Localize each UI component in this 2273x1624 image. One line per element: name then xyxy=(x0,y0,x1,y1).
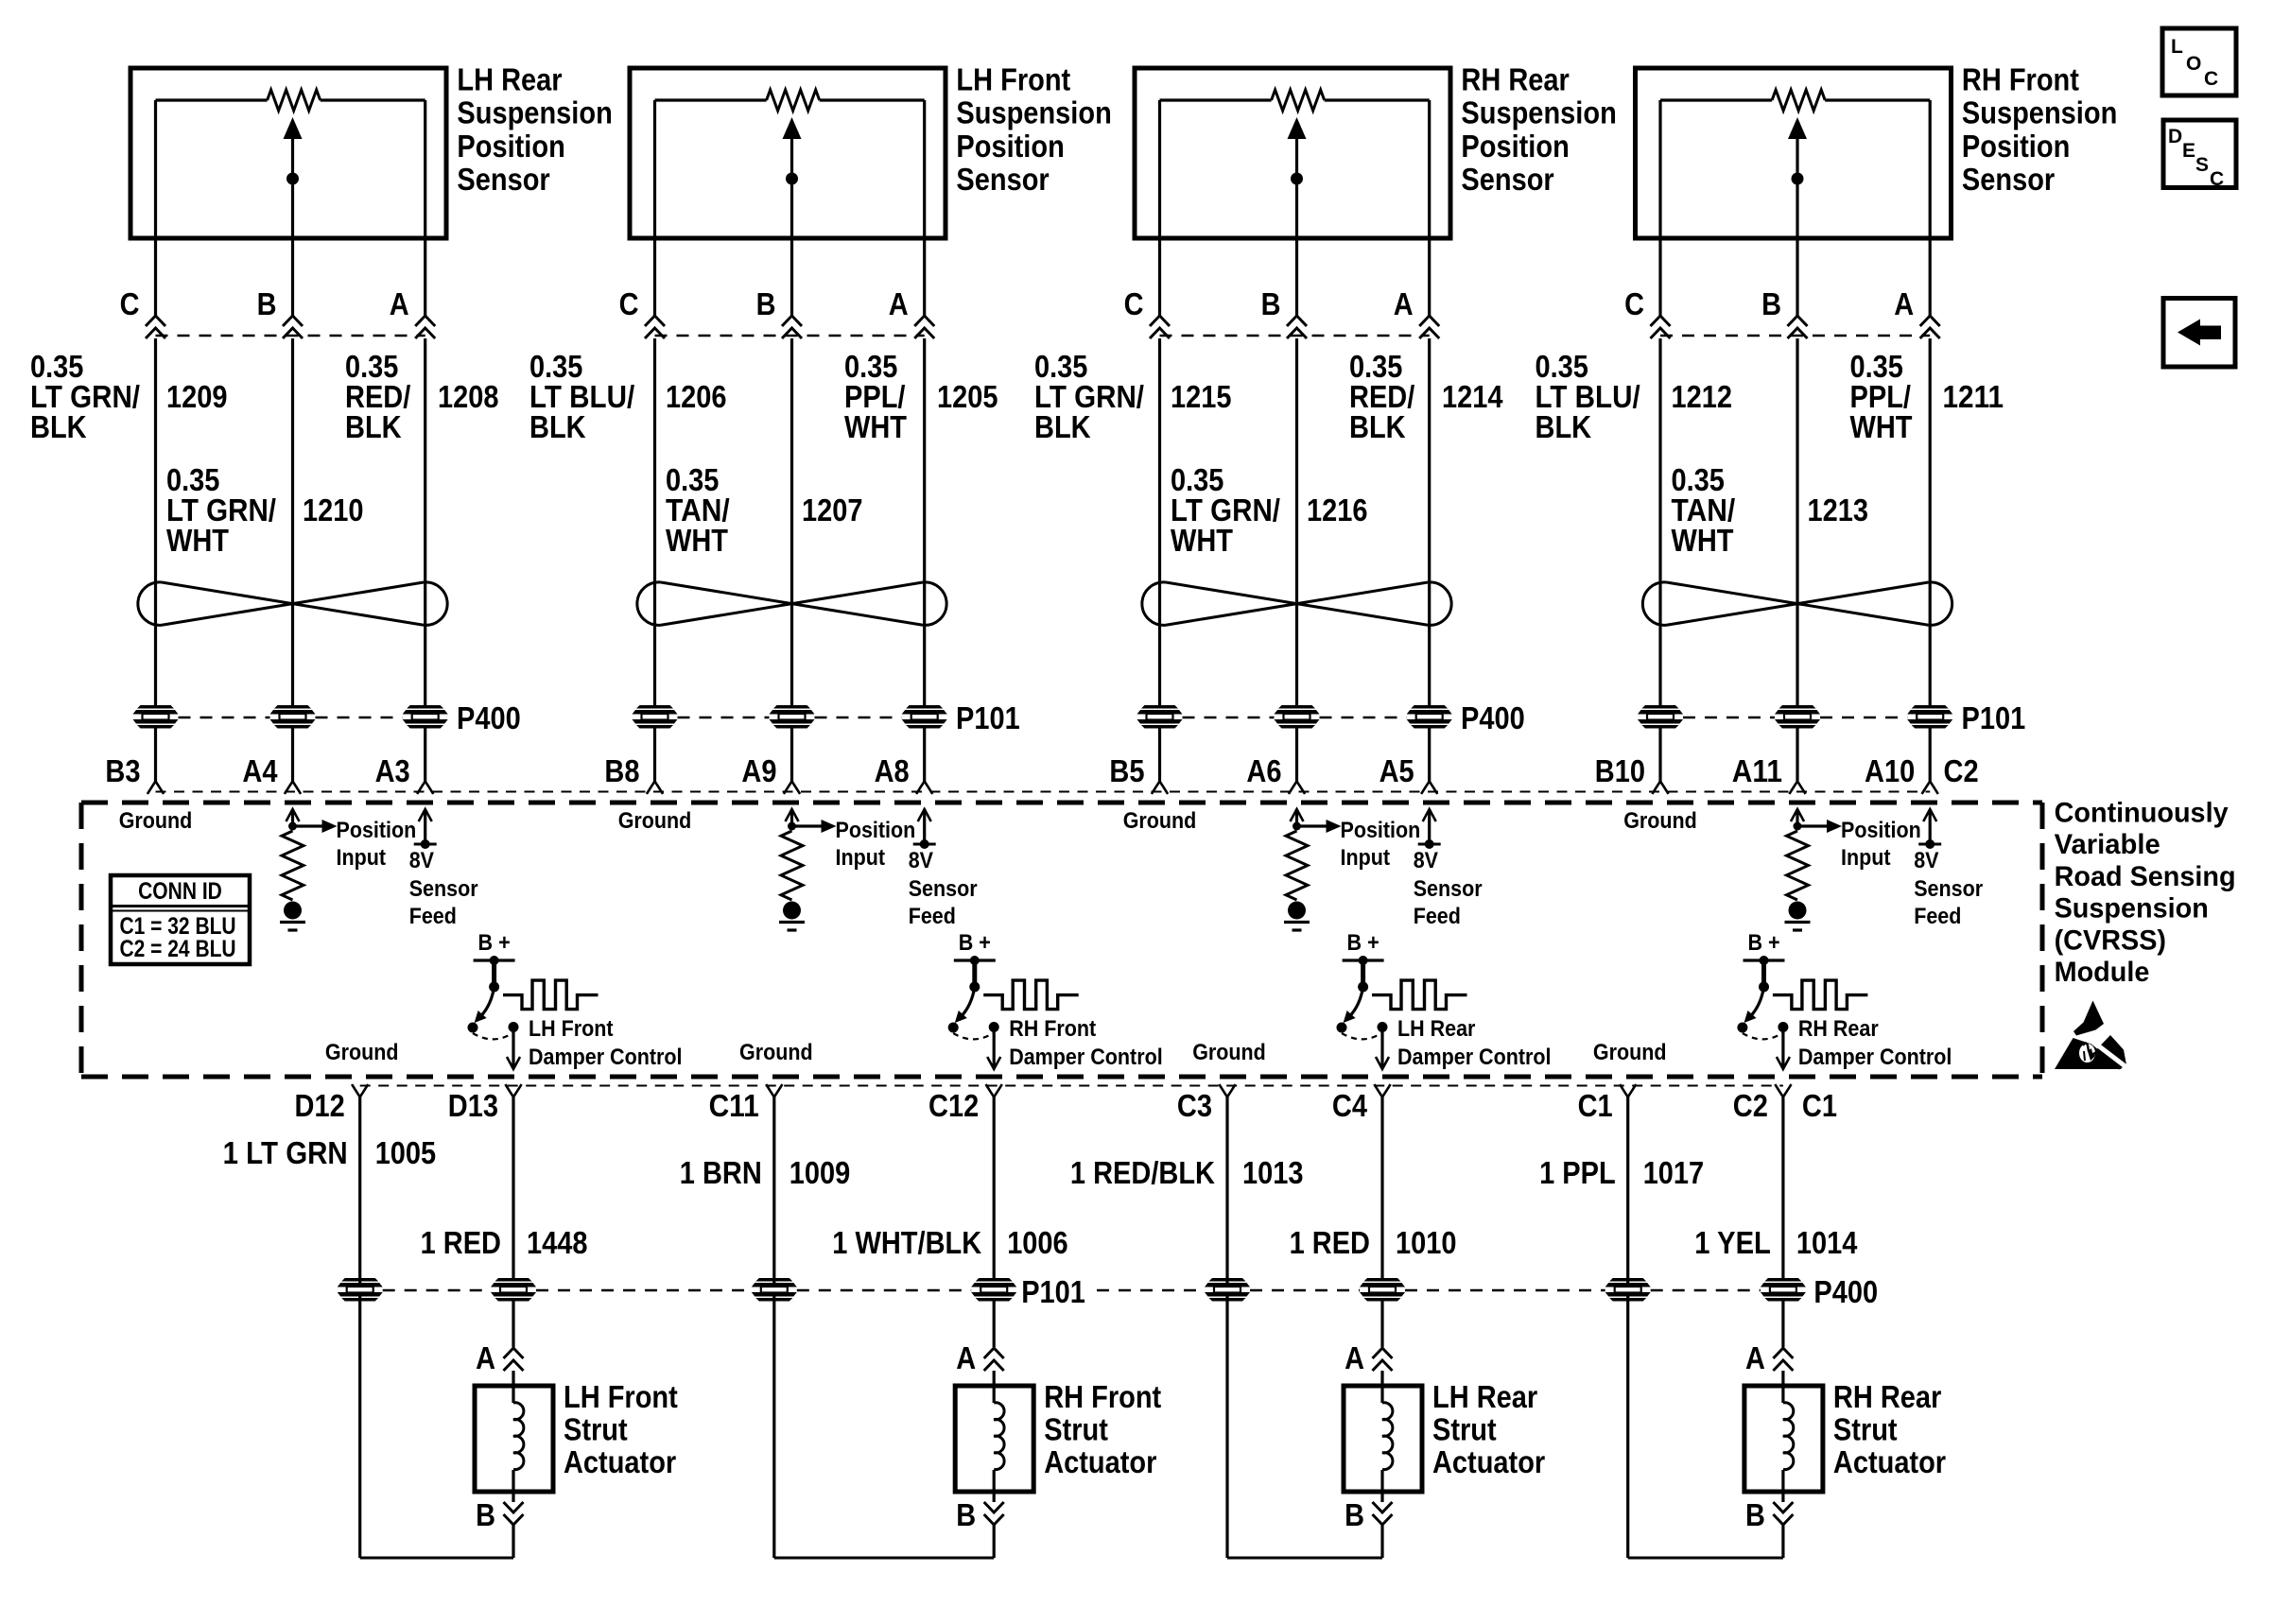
actuator M3 title xyxy=(1432,1379,1545,1479)
sensor S4 RH Front Suspension Position Sensor box xyxy=(1636,68,1952,238)
svg-text:P101: P101 xyxy=(956,700,1020,735)
svg-text:1207: 1207 xyxy=(802,492,863,527)
ground (module internal) xyxy=(280,902,305,931)
svg-text:1 YEL: 1 YEL xyxy=(1694,1225,1771,1260)
svg-text:C1: C1 xyxy=(1578,1088,1613,1123)
RH Front Damper Control output arrow (pin C12) xyxy=(987,1028,1000,1070)
module connector terminal fork pin A9 xyxy=(784,782,800,794)
wire value label 0.35 TAN/ WHT (circuit 1207) xyxy=(666,462,730,558)
svg-text:C2: C2 xyxy=(1944,753,1979,788)
twisted-pair symbol on sensor S1 harness xyxy=(138,582,447,626)
wire A from sensor S1 to in-line connector xyxy=(424,238,426,316)
wire value label 0.35 PPL/ WHT (circuit 1211) xyxy=(1850,349,1913,444)
svg-text:1208: 1208 xyxy=(438,379,499,414)
wire segment B below in-line connector S1 xyxy=(291,338,294,705)
svg-text:Position: Position xyxy=(1461,129,1569,164)
svg-text:Sensor: Sensor xyxy=(1962,162,2055,197)
svg-text:Sensor: Sensor xyxy=(1461,162,1553,197)
svg-text:Damper Control: Damper Control xyxy=(1397,1045,1552,1070)
svg-text:Ground: Ground xyxy=(325,1040,399,1065)
svg-text:1010: 1010 xyxy=(1396,1225,1457,1260)
svg-text:Sensor: Sensor xyxy=(956,162,1049,197)
svg-text:LH Rear: LH Rear xyxy=(1397,1016,1475,1042)
module connector terminal fork pin C4 xyxy=(1374,1084,1390,1097)
DESC reference box xyxy=(2163,120,2236,190)
PWM waveform symbol for LH Rear damper control xyxy=(1372,980,1467,1010)
damper control wire 1448 (1 RED) from pin D13 xyxy=(512,1097,514,1279)
wire segment C below in-line connector S3 xyxy=(1158,338,1161,705)
back-arrow navigation box xyxy=(2163,299,2235,368)
ground (module internal) xyxy=(779,902,805,931)
dashed link across bottom connector row (between pairs) xyxy=(536,1289,1605,1292)
dashed link between P400 connectors S3 xyxy=(1183,717,1275,719)
pass-through connector on ground wire 1017 xyxy=(1605,1278,1651,1302)
svg-text:Input: Input xyxy=(337,845,387,871)
actuator M2 title xyxy=(1044,1379,1161,1479)
svg-text:LH Front: LH Front xyxy=(564,1379,678,1414)
module connector terminal fork pin A6 xyxy=(1289,782,1305,794)
wire segment B below in-line connector S3 xyxy=(1295,338,1298,705)
8V Sensor Feed source arrow (pin A10) xyxy=(1918,809,1941,849)
connector mating dashed line sensor S2 xyxy=(655,335,925,337)
ground return wire 1017 (1 PPL) from pin C1 xyxy=(1628,1097,1783,1559)
svg-text:O: O xyxy=(2186,53,2201,75)
svg-text:A: A xyxy=(1745,1340,1765,1375)
switch SW3 LH Rear damper control driver xyxy=(1337,960,1388,1039)
in-line connector chevrons at actuator A xyxy=(1373,1348,1393,1371)
ESD sensitive device symbol xyxy=(2055,1001,2126,1070)
svg-text:B: B xyxy=(476,1497,495,1532)
wire B from sensor S3 to in-line connector xyxy=(1295,238,1298,316)
module bottom connector mating dashed line xyxy=(360,1085,1783,1087)
LOC reference box xyxy=(2162,28,2236,95)
resistor R2 potentiometer element of sensor S2 xyxy=(767,90,820,111)
wire segment C below in-line connector S2 xyxy=(653,338,656,705)
svg-text:Actuator: Actuator xyxy=(1833,1444,1946,1479)
actuator M4 RH Rear Strut Actuator box xyxy=(1744,1386,1823,1492)
svg-text:B: B xyxy=(1745,1497,1765,1532)
svg-text:A8: A8 xyxy=(875,753,910,788)
svg-text:Feed: Feed xyxy=(1914,904,1961,929)
svg-text:BLK: BLK xyxy=(1536,409,1592,444)
svg-text:Sensor: Sensor xyxy=(1414,876,1483,902)
CVRSS module dashed outline box xyxy=(81,803,2042,1077)
svg-text:C1: C1 xyxy=(1802,1088,1837,1123)
pass-through connector on ground wire 1009 xyxy=(752,1278,797,1302)
svg-text:Actuator: Actuator xyxy=(1044,1444,1156,1479)
pass-through connector on damper wire 1006 xyxy=(971,1278,1016,1302)
twisted-pair symbol on sensor S2 harness xyxy=(637,582,946,626)
wire value label 0.35 RED/ BLK (circuit 1214) xyxy=(1349,349,1414,444)
module connector terminal fork pin D13 xyxy=(505,1084,521,1097)
8V Sensor Feed source arrow (pin A8) xyxy=(913,809,936,849)
label RH Front Damper Control xyxy=(1009,1016,1163,1070)
wire segment C to module pin B8 xyxy=(653,729,656,782)
label LH Front Damper Control xyxy=(529,1016,683,1070)
module top connector mating dashed line xyxy=(156,791,1931,793)
LH Front Damper Control output arrow (pin D13) xyxy=(507,1028,520,1070)
terminal letters C B A at sensor S4 connector xyxy=(1624,286,1914,321)
dashed link between bottom connectors xyxy=(1651,1289,1761,1292)
svg-text:Feed: Feed xyxy=(409,904,457,929)
wire segment A below in-line connector S4 xyxy=(1929,338,1932,705)
twisted-pair symbol on sensor S3 harness xyxy=(1142,582,1451,626)
ground return wire 1009 (1 BRN) from pin C11 xyxy=(774,1097,994,1559)
svg-text:Strut: Strut xyxy=(1833,1412,1898,1447)
svg-text:BLK: BLK xyxy=(1034,409,1091,444)
label Position Input xyxy=(337,818,417,871)
svg-text:BLK: BLK xyxy=(1349,409,1406,444)
wire value label 0.35 RED/ BLK (circuit 1208) xyxy=(345,349,410,444)
wire value label 0.35 LT BLU/ BLK (circuit 1212) xyxy=(1536,349,1640,444)
svg-text:Strut: Strut xyxy=(564,1412,628,1447)
node B+ supply for LH Front damper switch xyxy=(474,930,515,965)
dashed link between bottom connectors xyxy=(1250,1289,1360,1292)
svg-text:RH Rear: RH Rear xyxy=(1798,1016,1879,1042)
svg-text:B: B xyxy=(1345,1497,1364,1532)
svg-text:C4: C4 xyxy=(1332,1088,1368,1123)
wire segment A to module pin A8 xyxy=(923,729,926,782)
ground return wire 1005 (1 LT GRN) from pin D12 xyxy=(360,1097,513,1559)
in-line connector chevrons at actuator B xyxy=(504,1502,524,1525)
svg-text:1 BRN: 1 BRN xyxy=(680,1155,762,1190)
svg-text:1214: 1214 xyxy=(1442,379,1503,414)
svg-text:Sensor: Sensor xyxy=(409,876,478,902)
connector mating dashed line sensor S1 xyxy=(156,335,425,337)
dashed link between bottom connectors xyxy=(383,1289,491,1292)
svg-text:A6: A6 xyxy=(1246,753,1281,788)
svg-text:Strut: Strut xyxy=(1432,1412,1497,1447)
module connector terminal fork pin A3 xyxy=(417,782,433,794)
svg-text:Damper Control: Damper Control xyxy=(529,1045,683,1070)
svg-text:A: A xyxy=(390,286,409,321)
wire segment B to module pin A4 xyxy=(291,729,294,782)
wire value label 0.35 LT GRN/ BLK (circuit 1209) xyxy=(30,349,140,444)
pass-through connector P400 on wire A S3 xyxy=(1407,705,1452,729)
svg-text:C: C xyxy=(2204,68,2218,90)
terminal letters C B A at sensor S2 connector xyxy=(619,286,909,321)
wire segment A below in-line connector S3 xyxy=(1428,338,1431,705)
wire segment B to module pin A11 xyxy=(1796,729,1798,782)
wire A from sensor S3 to in-line connector xyxy=(1428,238,1431,316)
svg-text:Actuator: Actuator xyxy=(1432,1444,1545,1479)
resistor (module internal pull-down) on Position Input 3 xyxy=(1286,831,1308,900)
coil L3 solenoid winding of LH Rear strut actuator xyxy=(1382,1386,1393,1492)
svg-text:Damper Control: Damper Control xyxy=(1009,1045,1163,1070)
sensor S4 internal potentiometer track wires xyxy=(1660,100,1930,238)
resistor (module internal pull-down) on Position Input 1 xyxy=(282,831,304,900)
svg-text:A4: A4 xyxy=(242,753,278,788)
PWM waveform symbol for RH Front damper control xyxy=(983,980,1079,1010)
svg-text:B10: B10 xyxy=(1595,753,1645,788)
svg-text:Input: Input xyxy=(836,845,886,871)
svg-text:B: B xyxy=(1761,286,1781,321)
potentiometer wiper arrow of sensor S1 xyxy=(284,117,303,238)
svg-text:LH Front: LH Front xyxy=(956,62,1070,97)
pass-through connector on ground wire 1013 xyxy=(1205,1278,1250,1302)
svg-text:1017: 1017 xyxy=(1643,1155,1705,1190)
svg-text:1210: 1210 xyxy=(303,492,364,527)
pass-through connector P101 on wire A S4 xyxy=(1907,705,1952,729)
wire B from sensor S1 to in-line connector xyxy=(291,238,294,316)
wire segment B to ground return xyxy=(993,1525,996,1558)
wire segment A to module pin A10 xyxy=(1929,729,1932,782)
pass-through connector P101 on wire C S4 xyxy=(1638,705,1683,729)
sensor S3 RH Rear Suspension Position Sensor box xyxy=(1135,68,1450,238)
wire C from sensor S3 to in-line connector xyxy=(1158,238,1161,316)
svg-text:Position: Position xyxy=(457,129,564,164)
label Position Input xyxy=(836,818,916,871)
svg-text:Input: Input xyxy=(1341,845,1391,871)
svg-text:A11: A11 xyxy=(1732,753,1782,788)
wire B from sensor S2 to in-line connector xyxy=(790,238,793,316)
actuator M3 LH Rear Strut Actuator box xyxy=(1344,1386,1422,1492)
pass-through connector P101 on wire B S2 xyxy=(770,705,815,729)
svg-text:WHT: WHT xyxy=(166,523,229,558)
svg-text:A: A xyxy=(476,1340,495,1375)
terminal letters C B A at sensor S1 connector xyxy=(120,286,409,321)
wire segment A to module pin A5 xyxy=(1428,729,1431,782)
twisted-pair symbol on sensor S4 harness xyxy=(1642,582,1952,625)
wire segment B to ground return xyxy=(512,1525,514,1558)
actuator M4 title xyxy=(1833,1379,1946,1479)
PWM waveform symbol for LH Front damper control xyxy=(503,980,599,1010)
sensor S1 LH Rear Suspension Position Sensor box xyxy=(130,68,446,238)
svg-text:C: C xyxy=(120,286,140,321)
svg-text:A: A xyxy=(1345,1340,1364,1375)
svg-text:B +: B + xyxy=(959,930,991,956)
svg-text:1 WHT/BLK: 1 WHT/BLK xyxy=(832,1225,981,1260)
svg-text:BLK: BLK xyxy=(529,409,586,444)
in-line connector (double chevrons) on wires of sensor S2 xyxy=(645,316,934,338)
wire segment B to ground return xyxy=(1781,1525,1784,1558)
8V Sensor Feed source arrow (pin A5) xyxy=(1418,809,1441,849)
svg-text:1205: 1205 xyxy=(937,379,998,414)
wire segment A below in-line connector S2 xyxy=(923,338,926,705)
sensor S1 title label xyxy=(457,62,612,198)
svg-text:Ground: Ground xyxy=(119,808,193,834)
svg-text:B: B xyxy=(257,286,277,321)
svg-text:Suspension: Suspension xyxy=(956,95,1111,130)
svg-text:Position: Position xyxy=(337,818,417,843)
wire segment C below in-line connector S4 xyxy=(1658,338,1661,705)
pass-through connector P101 on wire A S2 xyxy=(902,705,947,729)
svg-text:P400: P400 xyxy=(1461,700,1525,735)
in-line connector chevrons at actuator B xyxy=(1373,1502,1393,1525)
connector mating dashed line sensor S3 xyxy=(1160,335,1430,337)
svg-text:1009: 1009 xyxy=(789,1155,851,1190)
module connector terminal fork pin B10 xyxy=(1652,782,1668,794)
svg-text:E: E xyxy=(2182,140,2195,162)
svg-text:A3: A3 xyxy=(375,753,410,788)
ground return wire 1013 (1 RED/BLK) from pin C3 xyxy=(1227,1097,1382,1559)
wire segment B below in-line connector S4 xyxy=(1796,338,1798,705)
wire value label 0.35 TAN/ WHT (circuit 1213) xyxy=(1672,462,1736,558)
svg-text:Variable: Variable xyxy=(2055,829,2160,860)
dashed link between P400 connectors S1 xyxy=(179,717,270,719)
coil L1 solenoid winding of LH Front strut actuator xyxy=(513,1386,524,1492)
svg-text:WHT: WHT xyxy=(1850,409,1913,444)
svg-text:Ground: Ground xyxy=(1593,1040,1667,1065)
wire B from sensor S4 to in-line connector xyxy=(1796,238,1798,316)
pass-through connector P101 on wire B S4 xyxy=(1775,705,1820,729)
module name text: Continuously Variable Road Sensing Suspension (CVRSS) Module xyxy=(2055,798,2236,989)
8V Sensor Feed source arrow (pin A3) xyxy=(414,809,437,849)
svg-text:Input: Input xyxy=(1841,845,1891,871)
svg-text:BLK: BLK xyxy=(345,409,402,444)
svg-text:C: C xyxy=(619,286,639,321)
svg-text:Ground: Ground xyxy=(1623,808,1697,834)
svg-text:WHT: WHT xyxy=(844,409,907,444)
damper control wire 1014 (1 YEL) from pin C2 xyxy=(1781,1097,1784,1279)
svg-text:1209: 1209 xyxy=(166,379,228,414)
svg-text:B: B xyxy=(1261,286,1281,321)
svg-text:Sensor: Sensor xyxy=(909,876,978,902)
resistor (module internal pull-down) on Position Input 2 xyxy=(781,831,803,900)
wire C from sensor S2 to in-line connector xyxy=(653,238,656,316)
svg-text:A5: A5 xyxy=(1379,753,1414,788)
svg-text:C3: C3 xyxy=(1177,1088,1212,1123)
svg-text:1211: 1211 xyxy=(1943,379,2004,414)
potentiometer wiper arrow of sensor S4 xyxy=(1788,117,1807,238)
svg-text:1006: 1006 xyxy=(1007,1225,1068,1260)
dashed link between P101 connectors S2 xyxy=(678,717,770,719)
wire from actuator bottom to terminal B xyxy=(512,1492,514,1502)
resistor R4 potentiometer element of sensor S4 xyxy=(1772,90,1825,111)
svg-text:WHT: WHT xyxy=(666,523,728,558)
svg-text:1 PPL: 1 PPL xyxy=(1539,1155,1616,1190)
svg-text:Position: Position xyxy=(1341,818,1421,843)
svg-text:Ground: Ground xyxy=(1123,808,1197,834)
svg-text:B8: B8 xyxy=(604,753,639,788)
label RH Rear Damper Control xyxy=(1798,1016,1952,1070)
module connector terminal fork pin C3 xyxy=(1219,1084,1235,1097)
LH Rear Damper Control output arrow (pin C4) xyxy=(1376,1028,1389,1070)
svg-text:8V: 8V xyxy=(909,848,933,873)
svg-text:8V: 8V xyxy=(1414,848,1438,873)
wire value label 0.35 LT BLU/ BLK (circuit 1206) xyxy=(529,349,634,444)
wire segment C to module pin B5 xyxy=(1158,729,1161,782)
pass-through connector P101 on wire C S2 xyxy=(633,705,678,729)
svg-text:Sensor: Sensor xyxy=(1914,876,1983,902)
PWM waveform symbol for RH Rear damper control xyxy=(1773,980,1868,1010)
wire C from sensor S1 to in-line connector xyxy=(154,238,157,316)
coil L2 solenoid winding of RH Front strut actuator xyxy=(994,1386,1004,1492)
actuator M1 LH Front Strut Actuator box xyxy=(475,1386,553,1492)
wire from actuator bottom to terminal B xyxy=(993,1492,996,1502)
damper control wire 1010 (1 RED) from pin C4 xyxy=(1380,1097,1383,1279)
node B+ supply for LH Rear damper switch xyxy=(1343,930,1384,965)
resistor R3 potentiometer element of sensor S3 xyxy=(1272,90,1325,111)
svg-text:B: B xyxy=(956,1497,976,1532)
wire value label 0.35 PPL/ WHT (circuit 1205) xyxy=(844,349,907,444)
svg-text:B +: B + xyxy=(1347,930,1379,956)
sensor S1 internal potentiometer track wires xyxy=(156,100,425,238)
ground (module internal) xyxy=(1785,902,1811,931)
svg-text:1013: 1013 xyxy=(1242,1155,1304,1190)
svg-text:B3: B3 xyxy=(105,753,140,788)
svg-text:Feed: Feed xyxy=(909,904,956,929)
resistor R1 potentiometer element of sensor S1 xyxy=(268,90,321,111)
svg-text:BLK: BLK xyxy=(30,409,87,444)
potentiometer wiper arrow of sensor S3 xyxy=(1288,117,1307,238)
svg-text:Continuously: Continuously xyxy=(2055,798,2229,829)
svg-text:C: C xyxy=(1624,286,1644,321)
wire segment to actuator terminal A xyxy=(512,1302,514,1348)
svg-text:1213: 1213 xyxy=(1808,492,1869,527)
svg-text:8V: 8V xyxy=(1914,848,1938,873)
wire A from sensor S4 to in-line connector xyxy=(1929,238,1932,316)
svg-text:RH Rear: RH Rear xyxy=(1461,62,1570,97)
svg-text:Ground: Ground xyxy=(618,808,692,834)
svg-text:S: S xyxy=(2195,154,2209,176)
svg-text:CONN ID: CONN ID xyxy=(138,878,222,905)
wire C from sensor S4 to in-line connector xyxy=(1658,238,1661,316)
module connector terminal fork pin B8 xyxy=(647,782,663,794)
svg-text:P101: P101 xyxy=(1962,700,2026,735)
module connector terminal fork pin A5 xyxy=(1421,782,1437,794)
Position Input signal arrow (pin A11) xyxy=(1791,809,1842,833)
wire segment to actuator terminal A xyxy=(1380,1302,1383,1348)
svg-text:RH Front: RH Front xyxy=(1009,1016,1096,1042)
pass-through connector P400 on wire A S1 xyxy=(403,705,448,729)
svg-text:1005: 1005 xyxy=(375,1135,437,1170)
pass-through connector P400 on wire C S3 xyxy=(1137,705,1183,729)
wire A from sensor S2 to in-line connector xyxy=(923,238,926,316)
pass-through connector on damper wire 1014 xyxy=(1761,1278,1806,1302)
svg-text:Position: Position xyxy=(956,129,1064,164)
svg-text:D12: D12 xyxy=(295,1088,345,1123)
svg-text:Suspension: Suspension xyxy=(1962,95,2117,130)
in-line connector chevrons at actuator B xyxy=(984,1502,1004,1525)
wire segment A below in-line connector S1 xyxy=(424,338,426,705)
Position Input signal arrow (pin A4) xyxy=(286,809,338,833)
module connector terminal fork pin A8 xyxy=(916,782,932,794)
ground (module internal) xyxy=(1284,902,1310,931)
damper control wire 1006 (1 WHT/BLK) from pin C12 xyxy=(993,1097,996,1279)
pass-through connector P400 on wire C S1 xyxy=(133,705,179,729)
wire from actuator bottom to terminal B xyxy=(1380,1492,1383,1502)
svg-text:(CVRSS): (CVRSS) xyxy=(2055,924,2166,956)
in-line connector chevrons at actuator A xyxy=(504,1348,524,1371)
pass-through connector P400 on wire B S3 xyxy=(1275,705,1320,729)
label Position Input xyxy=(1841,818,1921,871)
svg-text:C: C xyxy=(2210,168,2224,190)
module connector terminal fork pin A11 xyxy=(1789,782,1805,794)
label 8V Sensor Feed xyxy=(1414,848,1483,929)
resistor (module internal pull-down) on Position Input 4 xyxy=(1787,831,1809,900)
wire segment B to module pin A6 xyxy=(1295,729,1298,782)
wire segment B below in-line connector S2 xyxy=(790,338,793,705)
terminal letters C B A at sensor S3 connector xyxy=(1124,286,1414,321)
svg-text:A10: A10 xyxy=(1865,753,1915,788)
svg-text:Damper Control: Damper Control xyxy=(1798,1045,1952,1070)
sensor S3 title label xyxy=(1461,62,1616,198)
module connector terminal fork pin B5 xyxy=(1152,782,1168,794)
coil L4 solenoid winding of RH Rear strut actuator xyxy=(1783,1386,1794,1492)
in-line connector chevrons at actuator A xyxy=(1773,1348,1793,1371)
Position Input signal arrow (pin A9) xyxy=(786,809,837,833)
svg-text:A: A xyxy=(889,286,909,321)
switch SW1 LH Front damper control driver xyxy=(468,960,519,1039)
RH Rear Damper Control output arrow (pin C2) xyxy=(1777,1028,1790,1070)
wire value label 0.35 LT GRN/ WHT (circuit 1210) xyxy=(166,462,276,558)
label Position Input xyxy=(1341,818,1421,871)
svg-text:1 LT GRN: 1 LT GRN xyxy=(223,1135,348,1170)
svg-text:P400: P400 xyxy=(457,700,521,735)
svg-text:WHT: WHT xyxy=(1672,523,1734,558)
svg-text:Suspension: Suspension xyxy=(457,95,612,130)
